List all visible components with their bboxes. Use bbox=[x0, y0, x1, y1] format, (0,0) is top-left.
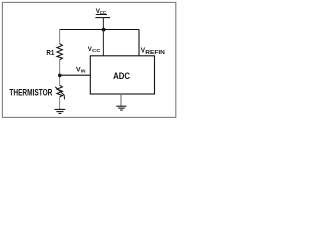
svg-text:IN: IN bbox=[81, 69, 86, 74]
svg-text:R1: R1 bbox=[46, 48, 54, 57]
svg-text:CC: CC bbox=[92, 48, 101, 54]
svg-text:THERMISTOR: THERMISTOR bbox=[9, 87, 52, 97]
svg-text:REFIN: REFIN bbox=[145, 50, 165, 56]
svg-text:ADC: ADC bbox=[113, 71, 130, 81]
